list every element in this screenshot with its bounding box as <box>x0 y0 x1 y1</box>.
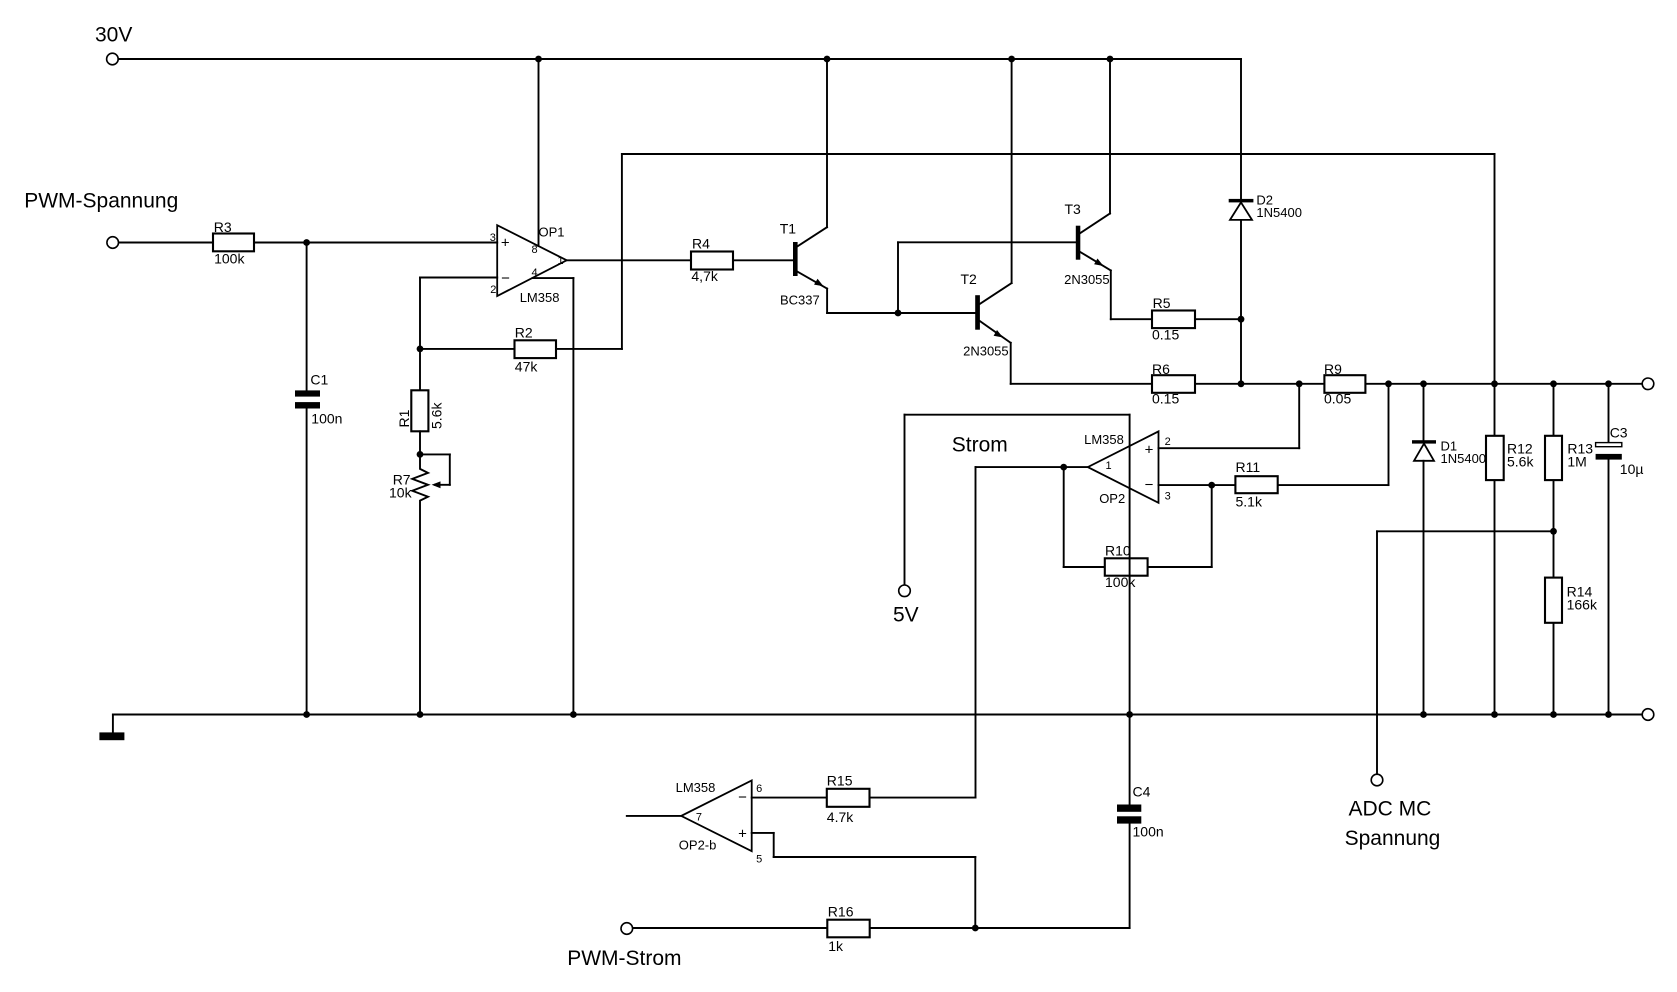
wire OP2 plus input vertical to node <box>1298 384 1300 448</box>
wire OP2-b pin5 vertical <box>773 833 775 857</box>
capacitor C4 <box>1117 805 1141 824</box>
svg-text:1k: 1k <box>828 938 844 954</box>
svg-text:0.15: 0.15 <box>1152 327 1179 343</box>
svg-text:−: − <box>738 789 747 806</box>
junction node OP2 plus <box>1296 380 1303 387</box>
wire feedback vertical right <box>1494 154 1496 384</box>
wire minus input vertical to R1 <box>419 278 421 391</box>
junction node C3 <box>1605 380 1612 387</box>
wire 5V vertical through OP2 to C4 <box>1129 415 1131 805</box>
svg-text:5V: 5V <box>893 604 919 627</box>
svg-text:OP2: OP2 <box>1099 491 1125 506</box>
svg-text:OP2-b: OP2-b <box>679 837 717 852</box>
resistor R5 <box>1152 311 1195 329</box>
resistor R13 <box>1545 436 1562 480</box>
junction ground D1 <box>1420 711 1427 718</box>
wire OP2-b pin5 stub <box>752 832 774 834</box>
wire T1 collector diagonal <box>798 227 828 246</box>
svg-text:0.15: 0.15 <box>1152 391 1179 407</box>
resistor R15 <box>827 789 870 807</box>
wire R7 wiper horizontal <box>420 453 450 455</box>
svg-text:−: − <box>1145 476 1154 493</box>
wire T3 base horizontal <box>898 241 1076 243</box>
svg-text:100k: 100k <box>1105 574 1136 590</box>
wire pin5 down to R16 node <box>974 857 976 928</box>
resistor R3 <box>213 234 254 252</box>
junction R1 R7 <box>417 451 424 458</box>
svg-text:1M: 1M <box>1567 454 1586 470</box>
wire OP2 minus input horizontal <box>1159 484 1236 486</box>
transistor T3 <box>1076 226 1104 266</box>
wire OP1 output to R4 <box>567 259 691 261</box>
wire 5V terminal vertical <box>904 415 906 585</box>
wire R10 right horizontal <box>1148 566 1212 568</box>
wire T2 emitter to R6 <box>1011 383 1152 385</box>
wire OP1 pin4 horizontal <box>533 277 574 279</box>
svg-text:R2: R2 <box>515 325 533 341</box>
wire R10 left horizontal <box>1064 566 1105 568</box>
resistor R14 <box>1545 578 1562 623</box>
wire node A vertical to T3 base <box>897 242 899 313</box>
wire T1 emitter vertical <box>826 289 828 313</box>
resistor R10 <box>1105 558 1148 575</box>
svg-text:100k: 100k <box>214 251 245 267</box>
svg-text:+: + <box>1145 441 1154 458</box>
potentiometer R7 <box>412 431 428 714</box>
junction node R13 <box>1550 380 1557 387</box>
junction R2 minus input <box>417 346 424 353</box>
junction R13 R14 ADC <box>1550 528 1557 535</box>
svg-text:2N3055: 2N3055 <box>1064 272 1110 287</box>
wire D1 top vertical <box>1423 384 1425 440</box>
junction node D1 <box>1420 380 1427 387</box>
wire OP1 pin4 vertical to ground rail <box>572 278 574 714</box>
svg-text:R15: R15 <box>827 773 853 789</box>
svg-text:166k: 166k <box>1567 597 1598 613</box>
wire R5 right to D2 node <box>1195 318 1241 320</box>
wire T3 collector vertical <box>1109 59 1111 214</box>
wire R2 right <box>556 348 622 350</box>
wire ADC sense horizontal <box>1377 530 1554 532</box>
svg-text:R3: R3 <box>214 219 232 235</box>
svg-text:1N5400: 1N5400 <box>1256 205 1302 220</box>
svg-text:R1: R1 <box>396 409 412 427</box>
svg-text:PWM-Spannung: PWM-Spannung <box>24 190 178 213</box>
op-amp OP1 <box>497 225 567 296</box>
svg-text:BC337: BC337 <box>780 293 820 308</box>
resistor R1 <box>411 390 428 431</box>
potentiometer R7 wiper arrowhead <box>432 481 441 488</box>
svg-text:T3: T3 <box>1065 201 1082 217</box>
wire R13 top vertical <box>1553 384 1555 436</box>
svg-text:T2: T2 <box>961 271 978 287</box>
wire T1 emitter to T2 base <box>827 312 975 314</box>
junction ground C3 <box>1605 711 1612 718</box>
svg-text:5.6k: 5.6k <box>429 402 445 429</box>
wire R7 wiper vertical <box>449 454 451 484</box>
wire OP2-b output stub <box>627 815 681 817</box>
wire R14 bottom vertical <box>1553 623 1555 715</box>
resistor R12 <box>1486 436 1504 480</box>
junction top rail T2 collector <box>1008 56 1015 63</box>
wire T3 emitter to R5 <box>1111 318 1152 320</box>
wire C3 bottom vertical <box>1608 460 1610 715</box>
junction R3 C1 <box>303 239 310 246</box>
wire R15 right horizontal <box>870 797 976 799</box>
junction ground OP1 pin4 <box>570 711 577 718</box>
wire R16 right <box>870 927 976 929</box>
terminal output ground <box>1642 709 1654 721</box>
ground <box>99 732 124 740</box>
wire R12 top vertical <box>1494 384 1496 436</box>
junction ground C4 line <box>1126 711 1133 718</box>
wire C4 bottom vertical <box>1129 824 1131 928</box>
wire feedback vertical left <box>621 154 623 349</box>
resistor R2 <box>515 340 557 358</box>
wire ground rail <box>113 714 1642 716</box>
svg-text:Spannung: Spannung <box>1345 827 1441 850</box>
svg-text:C3: C3 <box>1610 425 1628 441</box>
junction OP2 output R10 <box>1060 464 1067 471</box>
terminal PWM-Spannung <box>107 237 119 249</box>
svg-text:10µ: 10µ <box>1620 461 1644 477</box>
svg-text:LM358: LM358 <box>520 290 560 305</box>
wire R10 left vertical <box>1063 467 1065 567</box>
transistor T2 <box>975 295 1003 337</box>
wire OP2-b pin5 horizontal <box>774 856 976 858</box>
junction node D2 output rail <box>1238 380 1245 387</box>
wire T3 emitter vertical <box>1110 271 1112 320</box>
svg-text:10k: 10k <box>389 485 413 501</box>
svg-text:C4: C4 <box>1133 784 1151 800</box>
junction node A T1 emitter T3 base <box>895 310 902 317</box>
wire OP1 pin8 supply vertical <box>538 59 540 246</box>
junction R16 C4 pin5 <box>972 925 979 932</box>
terminal 30V <box>107 53 119 65</box>
wire 30V top rail <box>118 58 1241 60</box>
svg-text:3: 3 <box>1165 491 1171 503</box>
resistor R9 <box>1324 375 1365 393</box>
resistor R4 <box>691 252 733 270</box>
svg-text:LM358: LM358 <box>1084 432 1124 447</box>
junction top rail T3 collector <box>1107 56 1114 63</box>
svg-text:R5: R5 <box>1153 295 1171 311</box>
junction ground R14 <box>1550 711 1557 718</box>
wire R11 vertical to node <box>1388 384 1390 485</box>
diode D2 <box>1229 199 1254 220</box>
svg-text:1N5400: 1N5400 <box>1441 451 1487 466</box>
wire D2 bottom vertical <box>1240 220 1242 384</box>
svg-text:5.6k: 5.6k <box>1507 454 1534 470</box>
terminal PWM-Strom <box>621 923 633 935</box>
capacitor C1 <box>295 390 320 408</box>
wire D1 bottom vertical <box>1423 461 1425 715</box>
svg-text:47k: 47k <box>515 359 539 375</box>
wire R13 bottom vertical <box>1553 480 1555 531</box>
junction ground R12 <box>1491 711 1498 718</box>
wire R7 wiper arrow lead <box>435 484 450 486</box>
wire T3 collector diagonal <box>1080 214 1110 234</box>
svg-text:8: 8 <box>532 244 538 256</box>
wire R2 left <box>420 348 515 350</box>
wire R12 bottom vertical <box>1494 480 1496 714</box>
wire R4 to T1 base <box>733 259 793 261</box>
svg-text:R10: R10 <box>1105 543 1131 559</box>
diode D1 <box>1412 440 1436 461</box>
resistor R11 <box>1235 476 1277 493</box>
junction ground C1 <box>303 711 310 718</box>
svg-text:−: − <box>501 270 510 287</box>
svg-text:2N3055: 2N3055 <box>963 344 1009 359</box>
svg-text:C1: C1 <box>310 372 328 388</box>
svg-text:100n: 100n <box>311 411 342 427</box>
wire T1 emitter diagonal <box>798 272 828 289</box>
svg-text:+: + <box>738 825 747 842</box>
svg-text:+: + <box>501 235 510 252</box>
svg-text:OP1: OP1 <box>539 224 565 239</box>
op-amp OP2 <box>1088 431 1159 502</box>
terminal output positive <box>1642 378 1654 390</box>
transistor T1 <box>793 242 824 286</box>
terminal 5V <box>899 585 911 597</box>
wire R16 left <box>633 927 828 929</box>
svg-text:100n: 100n <box>1133 824 1164 840</box>
svg-text:R9: R9 <box>1324 361 1342 377</box>
wire ground stub <box>112 715 114 733</box>
svg-text:5: 5 <box>756 854 762 866</box>
svg-text:R16: R16 <box>828 904 854 920</box>
junction ground R7 <box>417 711 424 718</box>
junction R5 D2 <box>1238 316 1245 323</box>
svg-text:1: 1 <box>1106 460 1112 472</box>
svg-text:2: 2 <box>490 284 496 296</box>
wire C1 bottom vertical to ground rail <box>306 408 308 714</box>
op-amp OP2-b <box>681 781 752 852</box>
wire OP2 output horizontal <box>976 466 1088 468</box>
resistor R16 <box>827 920 869 938</box>
svg-text:6: 6 <box>756 783 762 795</box>
wire R11 right horizontal <box>1278 484 1389 486</box>
svg-text:3: 3 <box>490 232 496 244</box>
svg-text:Strom: Strom <box>952 434 1008 457</box>
wire 5V horizontal <box>905 414 1130 416</box>
wire T1 collector vertical <box>826 59 828 227</box>
svg-text:LM358: LM358 <box>676 780 716 795</box>
junction top rail T1 collector <box>824 56 831 63</box>
wire T2 emitter diagonal <box>980 321 1011 343</box>
svg-text:7: 7 <box>696 812 702 824</box>
junction node R12 feedback <box>1491 380 1498 387</box>
junction top rail OP1 supply <box>535 56 542 63</box>
svg-text:1: 1 <box>558 255 564 267</box>
svg-text:4,7k: 4,7k <box>691 268 718 284</box>
wire OP1 minus input horizontal <box>420 277 497 279</box>
wire T3 emitter diagonal <box>1080 252 1111 271</box>
wire T2 collector vertical <box>1011 59 1013 283</box>
svg-text:5.1k: 5.1k <box>1236 494 1263 510</box>
wire R14 top vertical <box>1553 531 1555 577</box>
wire output node rail R6 to R9 <box>1195 383 1324 385</box>
wire C3 top vertical <box>1608 384 1610 443</box>
wire OP2 output down to R15 <box>975 467 977 797</box>
svg-text:2: 2 <box>1165 436 1171 448</box>
wire T2 emitter vertical <box>1010 343 1012 384</box>
junction OP2 minus R10 R11 <box>1208 482 1215 489</box>
svg-text:4: 4 <box>532 267 538 279</box>
svg-text:R11: R11 <box>1236 459 1261 475</box>
wire PWM-Spannung input to R3 <box>119 242 214 244</box>
wire OP2-b pin6 horizontal <box>752 797 827 799</box>
svg-text:T1: T1 <box>780 221 797 237</box>
wire ADC sense vertical <box>1376 531 1378 774</box>
svg-text:PWM-Strom: PWM-Strom <box>567 947 681 970</box>
wire R10 right vertical <box>1211 485 1213 567</box>
svg-text:R6: R6 <box>1152 361 1170 377</box>
terminal ADC MC Spannung <box>1371 774 1383 786</box>
wire output node rail R9 to terminal <box>1365 383 1642 385</box>
wire T2 collector diagonal <box>980 283 1012 304</box>
svg-text:0.05: 0.05 <box>1324 391 1351 407</box>
wire C1 top vertical <box>306 243 308 391</box>
svg-text:ADC MC: ADC MC <box>1349 797 1432 820</box>
wire D2 top vertical <box>1240 59 1242 199</box>
resistor R6 <box>1152 375 1195 393</box>
capacitor C3 polarized <box>1596 443 1622 460</box>
wire feedback top horizontal <box>622 153 1495 155</box>
wire R3 to OP1 plus input <box>254 242 497 244</box>
svg-text:4.7k: 4.7k <box>827 809 854 825</box>
svg-text:30V: 30V <box>95 23 132 46</box>
junction node R9 R11 <box>1385 380 1392 387</box>
wire C4 bottom horizontal <box>975 927 1129 929</box>
svg-text:R4: R4 <box>692 236 710 252</box>
wire OP2 plus input horizontal <box>1159 447 1300 449</box>
